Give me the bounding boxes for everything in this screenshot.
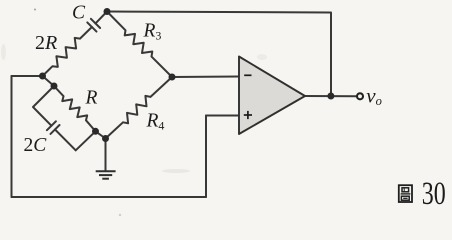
wire node G1 to node G2 [96,131,106,138]
svg-text:R: R [85,88,98,109]
svg-text:2C: 2C [24,135,48,156]
wire op-amp output [305,95,356,97]
node G1 [92,128,99,135]
capacitor 2C [47,121,76,150]
capacitor C [87,12,107,32]
svg-text:30: 30 [422,176,446,212]
wire node A1 to node A2 [43,76,55,86]
op-amp U1 [239,57,305,135]
wire feedback top [107,12,331,97]
wire 2C bottom corner to node G1 [76,131,96,150]
wire node A2 down-left [33,86,54,126]
svg-text:2R: 2R [35,32,57,54]
wire left input horizontal [12,75,43,77]
wire ground stem [105,139,107,171]
wire right vertical to plus input [205,116,207,198]
resistor 2R [43,27,92,76]
glyph tu (figure) [399,185,412,202]
node T [104,8,111,15]
wire bottom [12,196,207,198]
ground [96,171,116,178]
svg-text:C: C [72,3,86,24]
node output junction [327,93,334,100]
node A1 [39,73,46,80]
resistor R4 [106,77,173,139]
wire left vertical [11,76,13,197]
node B [169,74,176,81]
node G2 [102,135,109,142]
resistor R3 [107,12,172,78]
wire plus input [206,115,239,117]
wire node B to op-amp minus input [172,76,239,79]
scan specks [34,9,36,11]
resistor R [54,86,96,131]
node A2 [51,83,58,90]
output terminal [357,93,363,99]
